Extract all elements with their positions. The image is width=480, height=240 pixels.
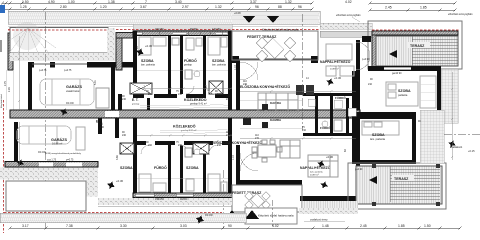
left vertical dim chain [18, 36, 20, 168]
stipple band under forecourt [10, 53, 121, 61]
svg-text:1.48: 1.48 [322, 224, 329, 228]
ET north wall [116, 33, 133, 39]
svg-text:TERASZ: TERASZ [394, 177, 409, 181]
terasz deck top-right [376, 36, 458, 66]
svg-text:E. T.: E. T. [132, 98, 138, 102]
kitchen/living top: left wall [236, 60, 240, 110]
svg-text:96: 96 [255, 5, 259, 9]
svg-text:240: 240 [255, 137, 260, 140]
party wall between units [10, 110, 360, 118]
garage bottom left wall [14, 122, 18, 166]
star on terasz bottom [319, 180, 329, 190]
top terrace columns [232, 56, 239, 63]
bedroom right wall [437, 66, 441, 118]
svg-text:2.45: 2.45 [385, 6, 392, 10]
dimension line bottom [10, 227, 460, 229]
axis line garage (dash-dot) [45, 12, 47, 228]
svg-text:240: 240 [226, 98, 231, 101]
svg-text:4.02: 4.02 [272, 224, 279, 228]
wall fürdő partition [180, 36, 183, 94]
door gaps corridor wall [144, 94, 154, 98]
tile band bottom [0, 213, 246, 223]
kitchen counter top [258, 93, 298, 112]
wall szoba1/fürdő bottom [168, 145, 171, 193]
svg-text:+0.15: +0.15 [468, 149, 475, 153]
right vertical dim chain [451, 72, 453, 160]
svg-text:elhúzható szúnyogháló: elhúzható szúnyogháló [336, 14, 361, 17]
bottom forecourt [6, 181, 86, 211]
svg-text:SZOBA: SZOBA [212, 59, 225, 63]
svg-text:ELŐSZOBA KONYHA+ÉTKEZŐ: ELŐSZOBA KONYHA+ÉTKEZŐ [240, 84, 290, 89]
entry door arcs bottom [240, 153, 258, 171]
sofa bottom living [308, 155, 338, 177]
right garden strip upper [441, 69, 458, 123]
svg-text:24.89 m²: 24.89 m² [330, 67, 339, 70]
interior dim chain top corridor [137, 87, 356, 92]
red firewall label bottom [245, 208, 297, 224]
corridor floor lines [140, 105, 228, 108]
svg-text:±0.00: ±0.00 [205, 213, 213, 217]
svg-text:lam. parketta: lam. parketta [310, 171, 323, 174]
svg-text:1.10: 1.10 [234, 65, 237, 70]
svg-text:4.90: 4.90 [48, 0, 55, 4]
dark bar left [8, 33, 13, 70]
svg-text:cca 1.75: cca 1.75 [47, 159, 57, 162]
furniture bottom rooms [139, 145, 227, 192]
extra interior thin lines [137, 70, 302, 178]
svg-text:1.85: 1.85 [420, 6, 427, 10]
svg-text:p+0.75: p+0.75 [39, 69, 47, 72]
svg-text:210: 210 [217, 144, 222, 147]
svg-text:210: 210 [148, 93, 153, 96]
svg-text:1.50: 1.50 [22, 0, 29, 4]
svg-text:120/150: 120/150 [212, 28, 221, 31]
party wall right extension [356, 112, 416, 119]
car bottom garage [17, 126, 71, 144]
svg-text:2.26: 2.26 [8, 87, 11, 92]
svg-text:+0.30: +0.30 [326, 155, 334, 159]
svg-text:24.89 m²: 24.89 m² [310, 173, 319, 176]
svg-text:1.32: 1.32 [215, 5, 222, 9]
roof tile band [8, 11, 320, 24]
deck corner squares [372, 202, 376, 206]
garage bottom wall [5, 162, 98, 168]
roof arrow triangle 2 [267, 16, 279, 23]
svg-text:KÖZLEKEDŐ: KÖZLEKEDŐ [173, 124, 196, 129]
svg-text:greslap: greslap [184, 63, 193, 66]
bottom wing exterior wall [133, 193, 232, 198]
red dashed top-right [372, 29, 460, 31]
small window sill marks [135, 31, 222, 198]
fedett terasz outline top [232, 31, 318, 60]
svg-text:1.50: 1.50 [424, 224, 431, 228]
red firewall dashed line top [8, 29, 320, 31]
svg-text:3.66: 3.66 [116, 155, 119, 160]
svg-text:210: 210 [178, 93, 183, 96]
svg-text:2.80: 2.80 [60, 5, 67, 9]
svg-text:3.67: 3.67 [140, 5, 147, 9]
roof light section over terrace [232, 12, 318, 24]
svg-text:7: 7 [145, 0, 147, 4]
terasz top-right outline [368, 21, 462, 69]
right garden strip lower [420, 110, 444, 163]
living right wall [356, 40, 360, 110]
svg-text:lam. parketta: lam. parketta [370, 137, 386, 141]
svg-text:7.38: 7.38 [66, 224, 73, 228]
bath fixtures top [172, 38, 200, 79]
svg-text:3.17: 3.17 [22, 224, 29, 228]
svg-text:240: 240 [100, 126, 105, 129]
wardrobe X-box right [209, 81, 223, 94]
svg-text:(5.98) mozgáskorlátozott parko: (5.98) mozgáskorlátozott parkolóhely [45, 152, 82, 155]
bed top unit right [386, 82, 418, 106]
svg-text:210: 210 [302, 129, 307, 132]
dimension numbers bottom [22, 224, 431, 228]
svg-text:210: 210 [217, 93, 222, 96]
bottom wing: corridor wall [133, 141, 232, 145]
terrace arrow top-right [389, 50, 397, 58]
svg-text:vasalt beton: vasalt beton [66, 89, 81, 93]
bedroom bottom right [352, 118, 356, 163]
dining table bottom [245, 192, 270, 209]
dimension line row2 [2, 9, 455, 10]
svg-text:greslap 9.41 m²: greslap 9.41 m² [190, 102, 207, 105]
wing right wall [228, 31, 232, 118]
star marker living top [325, 77, 335, 87]
svg-text:greslap: greslap [132, 103, 140, 106]
bath fixtures bottom [185, 148, 200, 157]
ET stipple strip [107, 28, 115, 53]
car top garage [40, 79, 94, 105]
svg-text:150/150: 150/150 [155, 28, 164, 31]
living furniture top [326, 44, 354, 76]
wall partition bottom [180, 145, 183, 193]
svg-text:240: 240 [122, 98, 127, 101]
svg-text:16.88 m²: 16.88 m² [52, 142, 62, 146]
svg-text:240: 240 [243, 83, 248, 86]
kamra/bath walls top unit [303, 93, 360, 96]
wardrobe X-box bottom left [120, 143, 134, 154]
svg-text:FÜRDŐ: FÜRDŐ [184, 58, 197, 63]
red property line vertical [3, 100, 5, 233]
dimension ticks row2 [1, 8, 457, 12]
chimney block [362, 36, 371, 42]
terasz bottom outline [348, 163, 446, 209]
svg-text:210: 210 [148, 144, 153, 147]
svg-text:csatlakozó terep: csatlakozó terep [310, 219, 328, 222]
red firewall line over forecourt [8, 29, 108, 31]
window gap 1 [134, 32, 142, 35]
living right wall bottom [356, 118, 360, 168]
stipple band below rooms [98, 198, 232, 205]
bedroom left wall [352, 71, 356, 118]
furniture top rooms [139, 37, 227, 94]
svg-text:SZOBA: SZOBA [120, 166, 133, 170]
svg-text:TERASZ: TERASZ [410, 44, 425, 48]
svg-text:GARÁZS: GARÁZS [51, 137, 67, 142]
kamra door dark [262, 104, 268, 110]
roof arrow triangle bottom 2 [245, 210, 259, 219]
axis line center (dash-dot) [222, 170, 224, 228]
svg-text:parketta: parketta [398, 93, 408, 97]
tiny wall annotation texts [4, 28, 421, 201]
interior dim chain bottom corridor [137, 134, 356, 139]
ET/corridor divider [147, 98, 150, 112]
terasz label bottom [392, 175, 414, 181]
window gap 2 [173, 32, 186, 35]
terrace arrow bottom [369, 176, 377, 184]
kamra door dark bottom [262, 122, 268, 128]
svg-text:±0.00: ±0.00 [66, 101, 74, 105]
glass wall terrace [239, 58, 311, 60]
eaves thin line [8, 26, 318, 28]
kitchen bottom [252, 140, 300, 162]
star marker garage [59, 107, 69, 117]
svg-text:Kiépített tűzfal: Kiépített tűzfal [0, 94, 3, 108]
svg-text:FÜRDŐ: FÜRDŐ [320, 125, 331, 130]
red line above tile band [4, 212, 222, 214]
star marker living bottom [316, 159, 326, 169]
window gap 3 [216, 32, 227, 35]
svg-text:1.00: 1.00 [68, 0, 75, 4]
svg-text:240: 240 [122, 134, 127, 137]
svg-text:FÜRDŐ: FÜRDŐ [154, 165, 167, 170]
svg-text:1.25: 1.25 [20, 5, 27, 9]
living south wall bottom [236, 180, 302, 185]
svg-text:Kiépített tűzfal határvonala: Kiépített tűzfal határvonala [258, 214, 294, 218]
terrace north wall band [372, 31, 458, 35]
axis through red box [271, 200, 273, 226]
level star bottom entry [106, 180, 117, 191]
wall below terrace [368, 66, 441, 71]
garage/ET divider wall [111, 65, 115, 112]
svg-text:4.02: 4.02 [345, 0, 352, 4]
svg-text:2.75: 2.75 [4, 81, 7, 86]
entry door arcs top [240, 62, 258, 80]
star right [447, 139, 457, 149]
garage left wall [28, 62, 32, 112]
stair lines bottom terrace [390, 166, 440, 202]
tiny note texts top [336, 13, 473, 22]
roof arrow triangle bottom 1 [225, 210, 239, 219]
dimension ticks bottom [9, 227, 462, 230]
wing left wall [133, 31, 137, 94]
svg-text:p+0.90: p+0.90 [362, 58, 370, 61]
corridor wall top unit [133, 94, 232, 98]
left thin verticals [7, 70, 14, 110]
wardrobe right bedroom [420, 76, 436, 108]
svg-text:1.38: 1.38 [108, 0, 115, 4]
balcony door arcs [356, 42, 370, 70]
terasz deck bottom [356, 166, 442, 204]
ET walls bottom [98, 118, 102, 134]
shelves garage [96, 88, 109, 108]
svg-text:p=0.75: p=0.75 [66, 159, 74, 162]
svg-text:lam. parketta: lam. parketta [212, 63, 226, 66]
svg-text:5.01: 5.01 [94, 80, 97, 85]
kamra/bath walls bottom unit [303, 133, 360, 136]
svg-text:2.97: 2.97 [182, 5, 189, 9]
svg-text:p+0.75: p+0.75 [64, 69, 72, 72]
stair lines top-right [412, 36, 458, 66]
svg-text:+0.30: +0.30 [145, 44, 153, 48]
bath fixtures bottom unit [322, 120, 342, 131]
svg-text:SZOBA: SZOBA [398, 89, 411, 93]
svg-text:3.40: 3.40 [175, 0, 182, 4]
terasz label top-right [408, 42, 430, 48]
svg-text:elhúzható szúnyogháló: elhúzható szúnyogháló [448, 13, 473, 16]
wall fürdő/szoba2 [203, 36, 206, 94]
svg-text:+0.08: +0.08 [234, 11, 241, 15]
wing right wall bottom [228, 118, 232, 198]
kamra fixtures [308, 99, 356, 116]
wall fürdő/szoba2 bottom [203, 145, 206, 193]
entry wall bottom [236, 145, 240, 185]
eaves gray band [133, 24, 232, 30]
svg-text:SZOBA: SZOBA [372, 133, 385, 137]
svg-text:2.45: 2.45 [360, 224, 367, 228]
island dark top [296, 85, 304, 95]
wing left wall bottom [133, 118, 137, 198]
svg-text:3.30: 3.30 [120, 224, 127, 228]
dimension line row1 [2, 2, 455, 4]
ET west wall top unit [118, 94, 122, 118]
svg-text:88: 88 [278, 5, 282, 9]
svg-text:1.85: 1.85 [398, 224, 405, 228]
svg-text:SZOBA: SZOBA [141, 59, 154, 63]
right gray bands [320, 23, 372, 29]
fan rays [10, 28, 56, 53]
fedett terasz bottom outline [232, 185, 302, 212]
svg-text:+0.30: +0.30 [334, 76, 342, 80]
svg-text:KÖZLEKEDŐ: KÖZLEKEDŐ [184, 97, 207, 102]
ET west wall [116, 34, 122, 70]
svg-text:KAMRA: KAMRA [270, 118, 282, 122]
garage gate line [29, 63, 92, 65]
svg-text:90: 90 [228, 224, 232, 228]
garage top wall right part [87, 62, 133, 68]
svg-text:1.20: 1.20 [100, 5, 107, 9]
blue selection square [0, 5, 5, 13]
svg-text:lam. parketta: lam. parketta [141, 63, 155, 66]
axis line kitchen (dash-dot) [301, 14, 303, 130]
bedroom wing exterior top wall [133, 31, 232, 36]
living east exterior wall bottom [300, 196, 358, 201]
wall szoba1/fürdő [168, 36, 171, 94]
shelf bottom garage [76, 127, 85, 150]
dimension ticks row1 [1, 2, 457, 5]
svg-text:96: 96 [298, 5, 302, 9]
svg-text:1.10: 1.10 [232, 155, 235, 160]
svg-text:1.32: 1.32 [285, 0, 292, 4]
svg-text:NAPPALI+ÉTKEZŐ: NAPPALI+ÉTKEZŐ [300, 165, 331, 170]
svg-text:+0.30: +0.30 [116, 179, 124, 183]
stipple L band bottom garage [0, 168, 88, 180]
garage top: gate posts [29, 62, 34, 68]
roof arrow triangle 1 [243, 16, 255, 23]
door leaf bottom entry [243, 118, 251, 125]
star marker garage bottom [15, 158, 25, 168]
wardrobe X-box left [130, 83, 152, 94]
svg-text:90/150: 90/150 [190, 28, 198, 31]
terrace west wall column [372, 31, 376, 69]
svg-text:SZOBA: SZOBA [186, 166, 199, 170]
svg-text:3.03: 3.03 [180, 224, 187, 228]
svg-text:FÜRDŐ: FÜRDŐ [335, 95, 346, 100]
dashdot line right [444, 133, 480, 135]
svg-text:150/150: 150/150 [155, 198, 164, 201]
svg-text:p+0.90: p+0.90 [355, 168, 363, 171]
forecourt top [10, 28, 108, 54]
svg-text:90/150: 90/150 [180, 198, 188, 201]
svg-text:210: 210 [178, 144, 183, 147]
level star top rooms [135, 47, 146, 58]
wardrobe X-box bottom right [193, 143, 209, 154]
dimension numbers top [20, 0, 427, 10]
svg-text:210: 210 [368, 83, 373, 86]
dining table top [256, 37, 295, 61]
svg-text:GARÁZS: GARÁZS [66, 84, 82, 89]
svg-text:gerdő 90: gerdő 90 [392, 72, 402, 75]
bed bottom unit [362, 121, 399, 135]
svg-text:3.37: 3.37 [250, 0, 257, 4]
fan shade blob [13, 22, 41, 50]
